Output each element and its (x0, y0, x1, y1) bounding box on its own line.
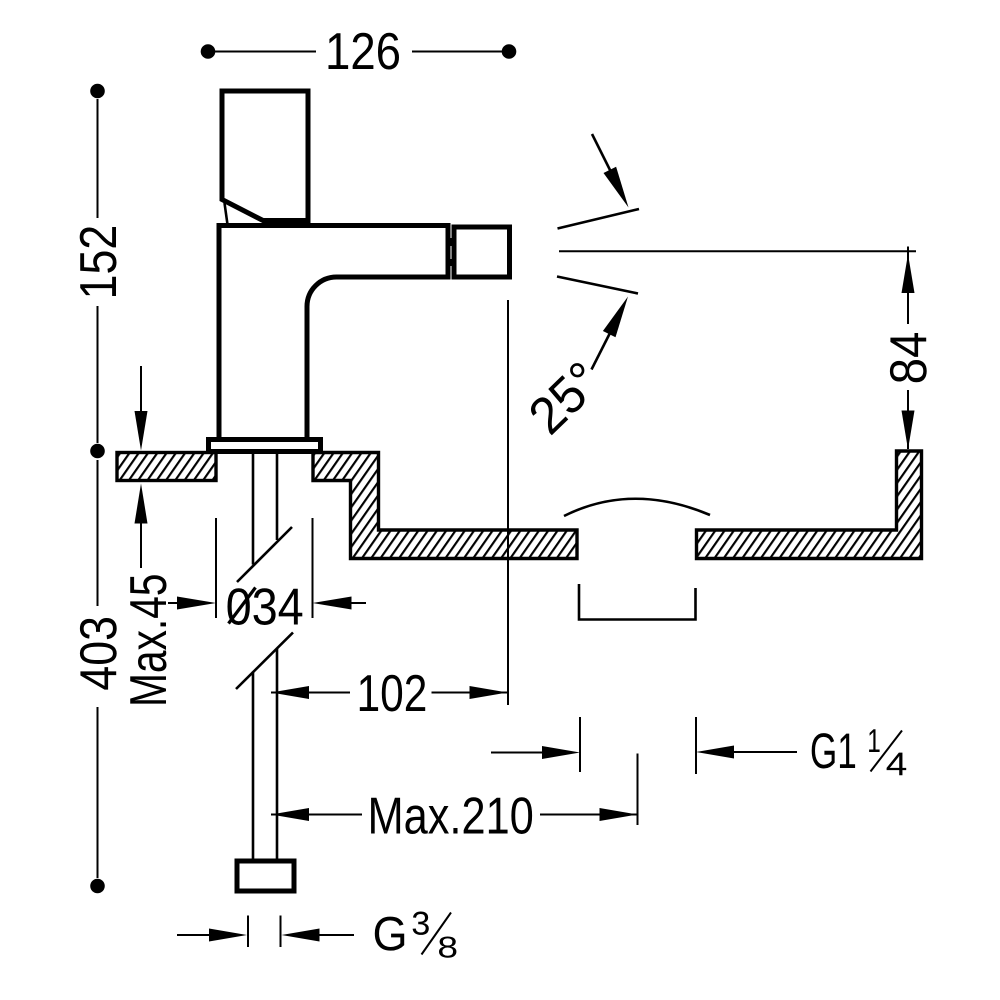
spray lower angled line (557, 277, 638, 294)
dim 403 line lower (97, 707, 99, 878)
dim G38 extension tick left (247, 916, 249, 948)
drain width arrow right tail (730, 751, 797, 753)
dim 102 extension line (507, 300, 509, 705)
handle (222, 91, 308, 221)
thread label G1 fraction denominator (887, 753, 907, 776)
base flange (209, 440, 321, 452)
bidet bowl rim arc (564, 499, 710, 516)
dim 84 line lower (907, 390, 909, 449)
aerator cube (454, 227, 510, 277)
dim text 403 (80, 618, 117, 690)
dim Max.210 line right (540, 814, 637, 816)
dim text 126 (328, 33, 399, 70)
dim G38 arrow left tail (177, 934, 215, 936)
dim 102 line left (271, 692, 350, 694)
drain width extension tick left (579, 717, 581, 772)
drain outline (579, 584, 696, 620)
lower leader line (592, 329, 613, 370)
dim text 102 (360, 675, 425, 712)
dim 403 dot bottom (90, 879, 105, 894)
countertop step section hatched (313, 453, 577, 559)
dim 102 arrowhead right (470, 686, 508, 699)
pipe break slash upper (237, 527, 292, 582)
dim Max.210 extension tick (637, 754, 639, 826)
dim text 84 (890, 333, 927, 382)
dim G38 arrow right tail (315, 934, 354, 936)
dim 84 arrowhead down (902, 411, 915, 450)
dim 102 arrowhead left (271, 686, 309, 699)
dim 126 dot left (201, 44, 216, 59)
thread label G38 denominator (439, 936, 456, 957)
dim diameter 34 arrowhead left (177, 597, 216, 610)
dim 403 line upper (97, 460, 99, 606)
thread label G38 G (375, 917, 404, 951)
lower leader arrowhead (603, 297, 628, 338)
supply nut (237, 861, 294, 891)
thread G 3/8 fraction slash (422, 913, 452, 955)
supply pipe left line lower (252, 672, 255, 862)
dim text Max.210 (371, 797, 532, 834)
supply pipe right line lower (276, 648, 279, 861)
dim 126 line right (412, 51, 503, 53)
spout height centerline (559, 250, 916, 252)
upper leader line (592, 134, 612, 174)
spray upper angled line (558, 209, 640, 229)
dim Max.45 lower arrow line (140, 520, 142, 568)
supply pipe right line upper (276, 452, 279, 541)
upper leader arrowhead (604, 167, 629, 208)
countertop right section hatched (697, 451, 922, 559)
faucet body and spout (219, 226, 448, 442)
dim diameter 34 extension line left (215, 518, 217, 618)
dim 102 line right (432, 692, 508, 694)
dim text 152 (80, 227, 117, 296)
dim Max.210 arrowhead right (600, 808, 638, 821)
drain width arrowhead right (696, 746, 734, 759)
dim G38 extension tick right (280, 916, 282, 948)
diameter symbol slash (229, 588, 256, 624)
dim Max.45 upper arrow line (140, 366, 142, 415)
dim 152 line lower (97, 306, 99, 443)
dim 152/403 shared dot (90, 444, 105, 459)
aerator joint line lower (450, 259, 452, 266)
drain width arrowhead left (542, 746, 580, 759)
aerator joint line upper (450, 238, 452, 246)
handle lever front edge (225, 203, 228, 225)
thread G1 1/4 fraction slash (871, 731, 903, 772)
dim diameter 34 extension line right (312, 518, 314, 618)
dim Max.45 lower arrowhead (135, 484, 148, 524)
supply pipe left line upper (252, 452, 255, 565)
dim 152 line upper (97, 99, 99, 218)
thread label G38 numerator (413, 912, 429, 935)
dim Max.45 upper arrowhead (135, 411, 148, 451)
dim 126 line left (214, 51, 316, 53)
dim 126 dot right (502, 44, 517, 59)
dim text 25 degrees (527, 360, 603, 435)
dim diameter 34 arrowhead right (313, 597, 352, 610)
dim Max.210 arrowhead left (271, 808, 309, 821)
dim 152 dot top (90, 84, 105, 99)
dim 84 line upper (907, 247, 909, 325)
dim text diameter 34 (227, 588, 302, 625)
pipe break slash lower (236, 633, 293, 690)
drain width arrow left tail (491, 752, 545, 754)
dim diameter 34 arrow left tail (168, 602, 182, 604)
dim diameter 34 arrow right tail (347, 602, 366, 604)
dim 84 arrowhead up (902, 254, 915, 293)
countertop left slab hatched (117, 453, 216, 481)
thread label G1 (812, 733, 855, 768)
dim Max.210 line left (271, 814, 362, 816)
dim text Max.45 (130, 575, 166, 703)
drain width extension tick right (695, 717, 697, 774)
thread label G1 fraction numerator (869, 729, 880, 752)
dim G38 arrowhead left (209, 929, 247, 942)
dim G38 arrowhead right (282, 929, 320, 942)
